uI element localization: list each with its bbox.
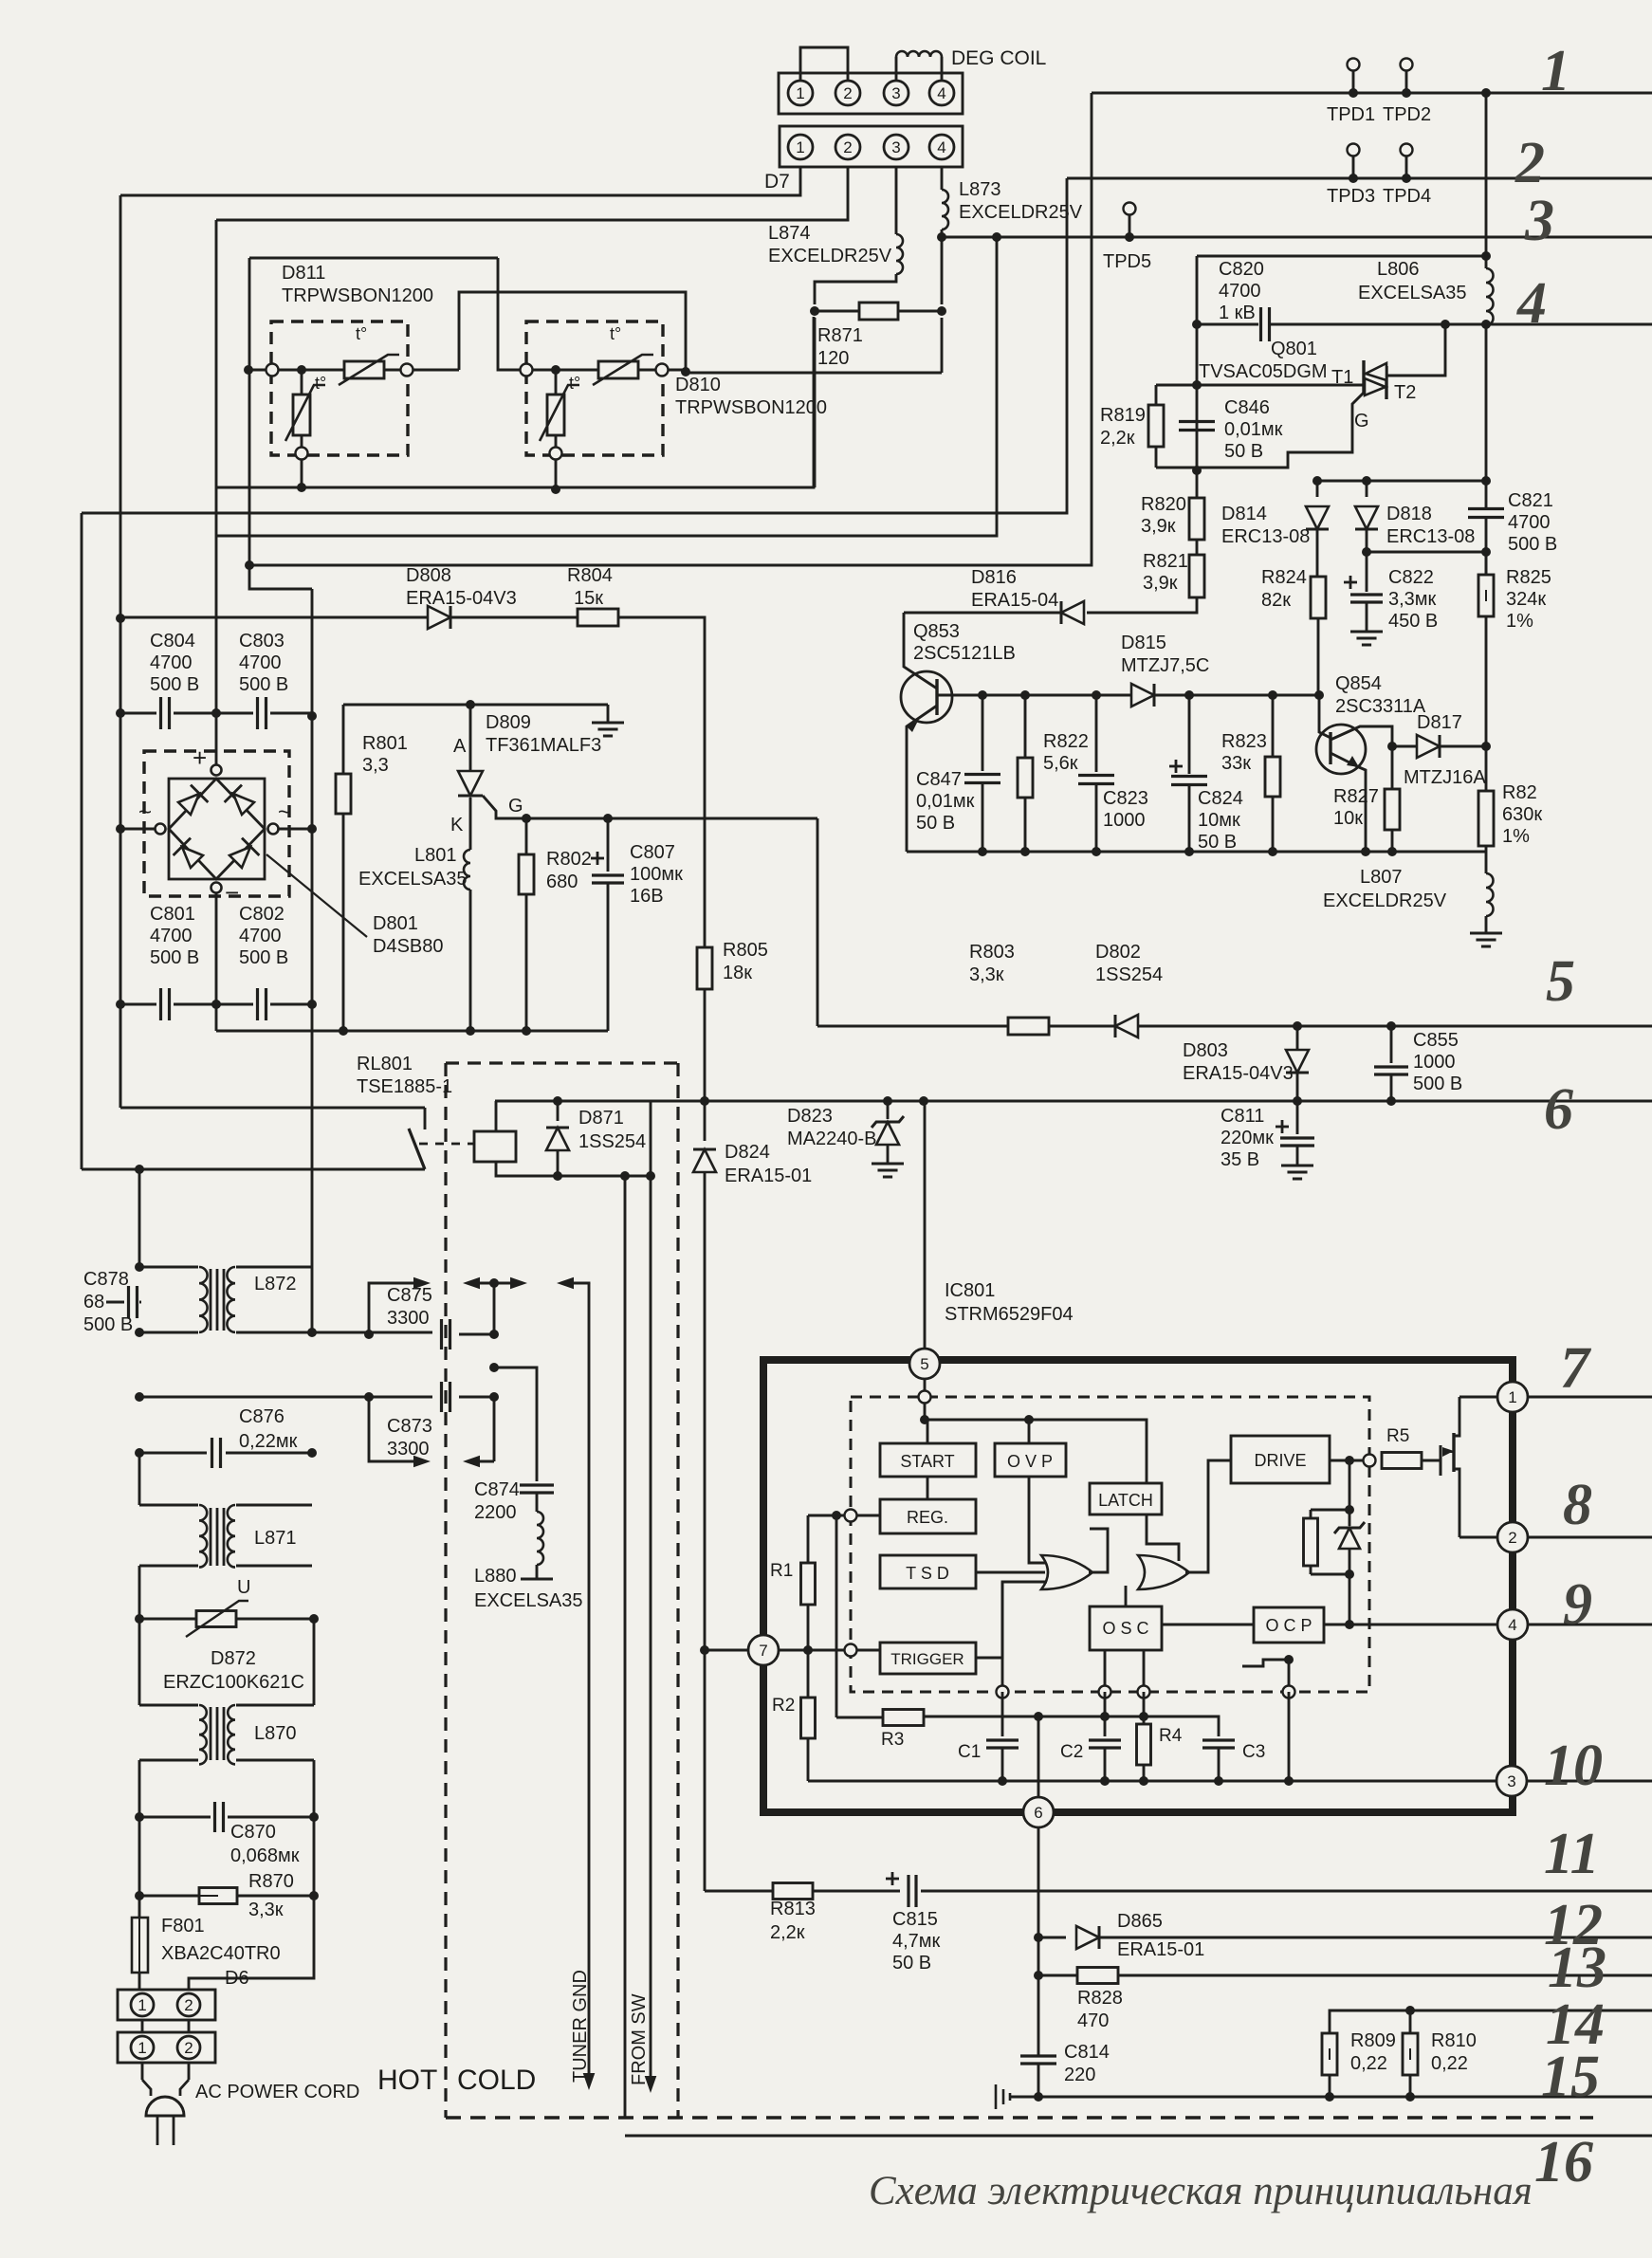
internal ground stub [1284,1655,1294,1664]
svg-text:3: 3 [891,84,900,102]
transformer L871 [138,1453,141,1505]
svg-text:R820: R820 [1141,494,1186,515]
svg-text:3300: 3300 [387,1439,430,1459]
capacitor C804 4700 500B [120,712,156,715]
svg-text:R3: R3 [881,1730,904,1750]
relay coil box [474,1131,516,1162]
thermistor in D810 vertical [555,370,558,395]
svg-text:8: 8 [1563,1473,1592,1537]
line 10 bus [1527,1780,1652,1783]
wire OCP ground column [1288,1660,1291,1692]
svg-text:4: 4 [1508,1616,1516,1634]
svg-text:16B: 16B [630,886,664,907]
svg-text:2: 2 [1508,1529,1516,1547]
svg-text:1: 1 [1508,1388,1516,1406]
svg-text:STRM6529F04: STRM6529F04 [945,1304,1074,1325]
wire D7 pin1 to left bus [120,167,800,195]
capacitor C873 3300 [440,1382,443,1412]
resistor R805 18k [697,947,712,989]
svg-text:3,3: 3,3 [362,755,389,776]
svg-text:1%: 1% [1506,611,1533,632]
inductor L806 EXCELSA35 [1486,268,1494,325]
zener D823 MA2240-B [887,1101,890,1119]
svg-text:R5: R5 [1386,1426,1409,1446]
wire TSD to gate1 [976,1571,1045,1574]
relay mechanical link dashed [419,1143,474,1146]
bottom rail inside IC [808,1780,1512,1783]
IC801 pin 1 [1497,1382,1528,1412]
svg-text:C3: C3 [1242,1742,1265,1762]
svg-text:TPD4: TPD4 [1383,186,1431,207]
svg-text:REG.: REG. [907,1508,948,1527]
svg-text:35 B: 35 B [1221,1149,1259,1170]
svg-text:TPD5: TPD5 [1103,251,1151,272]
connector D7 lower row [780,126,963,167]
resistor R813 2,2k [705,1890,773,1893]
svg-text:470: 470 [1077,2010,1109,2031]
svg-text:14: 14 [1546,1992,1605,2057]
block REG. [880,1499,976,1533]
svg-text:EXCELSA35: EXCELSA35 [1358,283,1467,303]
svg-text:C855: C855 [1413,1030,1459,1051]
capacitor C878 68 500B [138,1169,141,1267]
capacitor C822 3,3mk 450B polarized [1366,552,1368,592]
resistor R823 33k [1272,695,1275,757]
svg-text:4700: 4700 [239,652,282,673]
line 5 bus [817,1025,1008,1028]
svg-text:5: 5 [920,1355,928,1373]
diode D814 ERC13-08 [1316,481,1319,497]
svg-text:2SC5121LB: 2SC5121LB [913,643,1016,664]
svg-text:2: 2 [184,2039,193,2057]
IC801 thick box outline [763,1360,1513,1812]
svg-text:3,9к: 3,9к [1141,516,1176,537]
capacitor C824 10mk 50B polarized [1188,695,1191,774]
diode D865 ERA15-01 [1038,1937,1066,1939]
svg-text:3,3к: 3,3к [248,1900,284,1920]
svg-text:1%: 1% [1502,826,1530,847]
wire line6 to pin5 [924,1101,927,1353]
svg-text:START: START [900,1452,954,1471]
svg-text:D865: D865 [1117,1911,1163,1932]
wire pin6 column down [1037,1827,1040,2056]
svg-text:2: 2 [843,84,852,102]
wire REG left to R1 column [808,1515,880,1517]
svg-text:10: 10 [1544,1734,1603,1798]
bridge diode lower-right [229,847,250,868]
svg-text:R819: R819 [1100,405,1146,426]
svg-text:3,3к: 3,3к [969,964,1004,985]
svg-text:R824: R824 [1261,567,1307,588]
jumper link pins 1-2 upper connector [800,47,848,81]
svg-text:2: 2 [184,1996,193,2014]
svg-text:500 B: 500 B [239,947,288,968]
svg-text:EXCELDR25V: EXCELDR25V [768,246,892,266]
svg-text:R870: R870 [248,1871,294,1892]
test point TPD3 [1349,174,1358,183]
svg-text:TUNER GND: TUNER GND [570,1970,591,2083]
svg-text:D803: D803 [1183,1040,1228,1061]
svg-text:T2: T2 [1394,382,1416,403]
svg-text:D872: D872 [211,1648,256,1669]
wire OVP to gate1 [1029,1477,1046,1563]
wire LATCH to gate2 [1147,1515,1179,1561]
resistor R2 [807,1650,810,1698]
svg-text:t°: t° [315,374,326,393]
zener and resistor snubber [1349,1460,1351,1510]
diode D818 ERC13-08 [1366,481,1368,497]
svg-text:TRPWSBON1200: TRPWSBON1200 [675,397,827,418]
resistor R820 3,9k [1196,470,1199,498]
wire left loop vertical [248,258,251,565]
bridge diode lower-left [182,847,203,868]
svg-text:C811: C811 [1221,1106,1264,1127]
svg-text:D817: D817 [1417,712,1462,733]
FROM SW arrow [650,1176,652,2085]
svg-text:C876: C876 [239,1406,285,1427]
svg-text:500 B: 500 B [150,674,199,695]
svg-text:O S C: O S C [1102,1619,1148,1638]
wire long horizontal y565 [216,237,997,536]
diode D802 1SS254 [1049,1025,1115,1028]
svg-text:0,01мк: 0,01мк [916,791,975,812]
bottom rail of regulator block [216,1030,608,1033]
resistor R801 3,3 [343,704,470,707]
svg-text:FROM SW: FROM SW [629,1993,650,2085]
svg-text:L871: L871 [254,1528,297,1549]
wire left vertical x127 [119,195,122,1108]
svg-text:L870: L870 [254,1723,297,1744]
svg-text:4700: 4700 [150,652,193,673]
DEG coil winding pins 3-4 [895,57,898,81]
svg-text:C801: C801 [150,904,195,925]
IC801 inner dashed box [851,1397,1369,1692]
svg-text:50 B: 50 B [1198,832,1237,853]
svg-text:D824: D824 [725,1142,770,1163]
resistor R3 [836,1716,883,1719]
resistor R824 82k [1311,577,1326,618]
wire pin5 into dashed box [924,1379,927,1420]
svg-text:82к: 82к [1261,590,1291,611]
svg-text:2200: 2200 [474,1502,517,1523]
svg-text:2SC3311A: 2SC3311A [1335,696,1426,717]
wire R871 right to line3 and down [941,237,944,304]
svg-text:C804: C804 [150,631,195,652]
IC801 pin 2 [1497,1522,1528,1552]
wire OSC to OCP [1162,1624,1254,1626]
svg-text:G: G [508,796,523,817]
svg-text:MTZJ16A: MTZJ16A [1404,767,1486,788]
svg-text:C821: C821 [1508,490,1553,511]
svg-text:IC801: IC801 [945,1280,995,1301]
wire L873 to line3 [941,229,944,237]
svg-text:1: 1 [138,2039,146,2057]
block OVP [995,1443,1066,1477]
svg-text:~: ~ [138,799,152,825]
capacitor C820 4700 1kB [1259,307,1262,341]
inductor L801 EXCELSA35 [469,798,472,850]
svg-text:7: 7 [759,1642,767,1660]
line 4 bus [1197,323,1258,326]
svg-text:EXCELDR25V: EXCELDR25V [959,202,1083,223]
svg-text:500 B: 500 B [150,947,199,968]
svg-text:T S D: T S D [906,1564,949,1583]
svg-text:1 кB: 1 кB [1219,303,1256,323]
resistor R819 2,2k [1156,384,1197,387]
row B wire to C873 [139,1396,432,1399]
capacitor C821 4700 500B [1468,507,1504,510]
wire left vertical x86 down to relay [81,513,83,1169]
bridge AC wires [120,828,155,831]
svg-text:K: K [450,815,464,835]
test point TPD1 [1349,88,1358,98]
line 14 bus [1330,2010,1652,2033]
svg-text:−: − [225,878,239,907]
wire D808 R804 row [120,616,427,619]
wire D7 pin3 to L874 [895,167,898,234]
diode D817 MTZJ16A [1387,742,1397,751]
ground below C822 [1350,631,1383,633]
svg-text:680: 680 [546,872,578,892]
wire pin7 row [705,1649,880,1652]
svg-text:C870: C870 [230,1822,276,1843]
svg-text:R1: R1 [770,1561,793,1581]
resistor R803 3,3k [1008,1018,1049,1035]
svg-text:D809: D809 [486,712,531,733]
svg-text:L874: L874 [768,223,811,244]
line 16 bus [625,2135,1652,2138]
svg-text:2,2к: 2,2к [1100,428,1135,449]
svg-text:4: 4 [1516,271,1547,336]
gate of D809 [483,796,817,818]
svg-text:Q853: Q853 [913,621,960,642]
wire source to pin2 [1459,1536,1497,1539]
resistor R871 120 [810,306,819,316]
svg-text:50 B: 50 B [1224,441,1263,462]
zener diode near drive [1349,1510,1351,1526]
capacitor C803 4700 500B [216,712,253,715]
relay switch upper contact wire [120,1107,425,1110]
relay dashed outline / HOT-COLD barrier [444,1063,447,2118]
svg-text:4700: 4700 [1508,512,1551,533]
svg-text:t°: t° [569,374,580,393]
relay coil loop wires [495,1101,498,1131]
transistor Q853 2SC5121LB [901,671,952,723]
svg-text:DEG COIL: DEG COIL [951,47,1046,69]
capacitor C802 4700 500B [216,1003,253,1006]
svg-text:324к: 324к [1506,589,1546,610]
svg-text:3,9к: 3,9к [1143,573,1178,594]
svg-text:C878: C878 [83,1269,129,1290]
svg-text:ERZC100K621C: ERZC100K621C [163,1672,304,1693]
resistor R802 680 [525,818,528,854]
svg-text:0,01мк: 0,01мк [1224,419,1283,440]
thermistor in D811 vertical [301,370,303,395]
svg-text:1: 1 [796,84,804,102]
svg-text:t°: t° [610,324,621,343]
wire TRIGGER to gate1 lower [976,1582,1047,1658]
svg-text:TVSAC05DGM: TVSAC05DGM [1199,361,1328,382]
wire x228 vertical to bridge [215,536,218,771]
svg-text:2: 2 [843,138,852,156]
svg-text:1: 1 [138,1996,146,2014]
svg-text:R827: R827 [1333,786,1379,807]
svg-text:R82: R82 [1502,782,1537,803]
resistor R870 3,3k [138,1817,141,1896]
line 9 bus [1528,1624,1652,1626]
line 3 bus [942,236,1652,239]
svg-text:R810: R810 [1431,2030,1477,2051]
gate 1 [1041,1555,1092,1589]
svg-text:4700: 4700 [1219,281,1261,302]
svg-text:13: 13 [1548,1936,1606,2000]
chassis ground left of C814 [995,2084,998,2109]
thermal fuse assembly D810 TRPWSBON1200 dashed box [526,321,663,455]
svg-text:4: 4 [937,84,945,102]
svg-text:0,22: 0,22 [1431,2053,1468,2074]
wire R804 to R805 vertical [618,617,705,947]
resistor R810 0,22 [1409,2010,1412,2033]
svg-text:3: 3 [1524,189,1554,253]
wire loop to thermistors [459,292,942,373]
svg-text:R871: R871 [817,325,863,346]
svg-text:450 B: 450 B [1388,611,1438,632]
line 11 bus [813,1890,900,1893]
svg-text:C807: C807 [630,842,675,863]
capacitor C811 220mk 35B polarized [1296,1101,1299,1134]
svg-text:R802: R802 [546,849,592,870]
IC801 pin 5 [909,1349,940,1379]
wire gate2 lower to OSC [1125,1586,1128,1606]
resistor R821 3,9k [1196,540,1199,555]
svg-text:C823: C823 [1103,788,1148,809]
emitter rail y898 [907,851,1486,854]
svg-text:D7: D7 [764,171,790,193]
svg-text:C847: C847 [916,769,962,790]
wire REG column down to R3 [835,1515,838,1717]
svg-text:TRPWSBON1200: TRPWSBON1200 [282,285,433,306]
svg-text:R813: R813 [770,1899,816,1919]
IC801 pin 3 [1496,1766,1527,1796]
svg-text:ERC13-08: ERC13-08 [1386,526,1475,547]
wire R3 to C1 C2 R4 row [924,1716,1219,1718]
svg-text:R801: R801 [362,733,408,754]
svg-text:ERA15-04: ERA15-04 [971,590,1058,611]
line 6 bus [705,1100,1652,1103]
resistor R809 0,22 [1322,2033,1337,2075]
svg-text:0,068мк: 0,068мк [230,1845,300,1866]
svg-text:TRIGGER: TRIGGER [890,1650,964,1668]
block TRIGGER [880,1643,976,1674]
svg-text:2: 2 [1514,131,1545,195]
test point TPD2 [1402,88,1411,98]
connector DEG COIL upper row [779,73,963,114]
svg-text:11: 11 [1544,1822,1600,1886]
line 15 bus ground rail [1038,2096,1652,2099]
IC801 pin 4 [1497,1609,1528,1640]
svg-text:C824: C824 [1198,788,1243,809]
wire L874 to R871 left [815,274,896,304]
capacitor C846 0,01mk 50B [1179,420,1215,423]
resistor R827 10k [1391,746,1394,789]
svg-text:C803: C803 [239,631,285,652]
wire x329 vertical [311,589,314,1332]
svg-text:1: 1 [796,138,804,156]
inductor L874 [896,234,903,274]
resistor R822 5,6k [1024,695,1027,758]
svg-text:50 B: 50 B [916,813,955,834]
svg-text:1SS254: 1SS254 [578,1131,646,1152]
svg-text:D871: D871 [578,1108,624,1129]
inductor L873 [942,190,948,229]
capacitor C870 0,068mk [138,1760,141,1817]
svg-text:F801: F801 [161,1916,205,1937]
svg-text:R809: R809 [1350,2030,1396,2051]
IC801 pin 7 [748,1635,779,1665]
svg-text:50 B: 50 B [892,1953,931,1973]
svg-text:C846: C846 [1224,397,1270,418]
svg-text:EXCELDR25V: EXCELDR25V [1323,890,1447,911]
transformer L872 [199,1267,208,1332]
line 1 bus [1092,92,1652,95]
capacitor C1 [1001,1582,1004,1692]
svg-text:220мк: 220мк [1221,1128,1274,1148]
wire C874 branch [489,1363,499,1372]
svg-text:6: 6 [1034,1804,1042,1822]
svg-text:Q801: Q801 [1271,339,1317,359]
svg-text:16: 16 [1534,2130,1593,2194]
wire OCP to pin4 [1324,1624,1497,1626]
svg-text:L807: L807 [1360,867,1403,888]
bottom dashed separator [446,2116,1593,2119]
inductor L880 EXCELSA35 [536,1494,539,1512]
svg-text:ERA15-01: ERA15-01 [725,1166,812,1186]
AC power cord plug [141,2063,144,2080]
wire through D810 [521,364,533,376]
leader D801 label [266,854,367,937]
MOSFET switch [1440,1445,1442,1476]
bridge diode upper-right [233,794,254,815]
diode D824 ERA15-01 [704,1101,707,1141]
diode D816 ERA15-04 [1061,601,1084,624]
svg-text:G: G [1354,411,1369,431]
svg-text:D802: D802 [1095,942,1141,963]
block OCP [1254,1607,1324,1643]
block START [880,1443,976,1477]
svg-text:18к: 18к [723,963,752,983]
svg-text:TPD3: TPD3 [1327,186,1375,207]
svg-text:5: 5 [1546,949,1575,1014]
svg-text:D6: D6 [225,1968,249,1989]
svg-text:7: 7 [1560,1336,1592,1401]
wire thermistor loop top [249,257,498,260]
svg-text:R823: R823 [1221,731,1267,752]
svg-text:100мк: 100мк [630,864,683,885]
svg-text:0,22мк: 0,22мк [239,1431,298,1452]
capacitor C855 1000 500B [1390,1026,1393,1063]
wire FROM SW vertical [624,1176,627,2118]
svg-text:EXCELSA35: EXCELSA35 [358,869,468,890]
svg-text:5,6к: 5,6к [1043,753,1078,774]
wire D7 pin2 to left bus [216,167,848,220]
block OSC [1090,1606,1162,1650]
svg-text:R825: R825 [1506,567,1551,588]
svg-text:ERA15-04V3: ERA15-04V3 [1183,1063,1294,1084]
resistor R804 15k [578,609,618,626]
transformer L870 [138,1619,141,1705]
resistor R82 630k 1% [1485,746,1488,791]
inner top wire [925,1420,1147,1483]
